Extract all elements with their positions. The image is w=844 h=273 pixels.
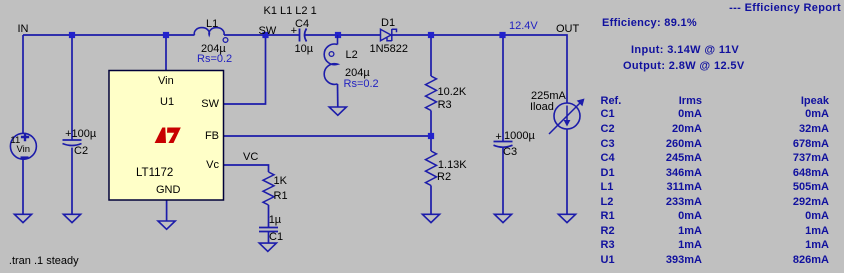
wire FB net [224,135,431,137]
input power line [631,44,739,57]
ground (C3) [494,214,511,222]
table row R1 Ipeak value [805,210,829,223]
table row C3 Irms value [666,138,702,151]
coupling statement K1 L1 L2 1 [264,5,317,18]
current source Iload (225mA) [549,99,585,135]
wire L1 to C4 [224,34,300,36]
resistor R1 value label 1K [274,175,287,188]
ground (U1 GND) [158,221,175,229]
junction C3 / OUT rail [499,32,505,38]
table row R3 Irms value [678,239,702,252]
table row C4 Irms value [666,152,702,165]
capacitor C1 [259,228,278,232]
C2 value label +100µ [65,128,96,141]
wire OUT rail [503,35,568,103]
table row R2 Irms value [678,225,702,238]
resistor R2 value label [438,159,467,172]
wire C4 to L2 node [305,34,381,36]
U1 value label LT1172 [136,167,173,180]
wire D1 cathode to R3 node [392,34,503,36]
C3 polarity plus [495,131,501,144]
node OUT label [556,23,579,36]
table row L2 Ipeak value [793,196,829,209]
efficiency report title [729,2,841,15]
table row C1 Ipeak value [805,108,829,121]
table row D1 Ipeak value [793,167,829,180]
voltage source Vin name label [17,145,31,156]
table row R2 ref [601,225,615,238]
wire R3 to R2 through FB node [430,111,432,152]
table row R2 Ipeak value [805,225,829,238]
junction R3 / OUT rail [428,32,434,38]
diode D1 (schottky 1N5822) [381,29,397,41]
wire R3 top [430,35,432,76]
node IN label [18,23,29,36]
table row R3 Ipeak value [805,239,829,252]
L2 value label 204µ [345,67,370,80]
table row U1 ref [601,254,615,267]
table row C4 ref [601,152,615,165]
junction FB / divider [428,133,434,139]
ground (R2) [422,214,439,222]
wire L2 to ground [337,84,339,107]
junction C2 / IN rail [69,32,75,38]
LT logo inside U1 [155,128,181,144]
inductor L2 [324,35,337,84]
wire Iload to ground [566,129,568,214]
table row L1 Ipeak value [793,181,829,194]
table row L1 Irms value [667,181,702,194]
capacitor C4 name label [295,18,309,31]
capacitor C3 (polarized) [494,142,513,148]
capacitor C1 name label [269,231,283,244]
resistor R1 [263,172,274,205]
table row C1 Irms value [678,108,702,121]
table row C3 ref [601,138,615,151]
table header Irms [679,95,702,108]
efficiency value line [602,17,697,30]
wire IN rail top [23,34,195,36]
capacitor C3 name label [503,146,517,159]
U1 pin GND label [156,184,180,197]
table row R1 ref [601,210,615,223]
resistor R2 name label [437,171,451,184]
wire C1 to ground [268,232,270,244]
spice directive .tran [9,255,79,268]
table row C2 Ipeak value [799,123,829,136]
table row U1 Irms value [666,254,702,267]
resistor R3 value label [438,86,467,99]
node SW label [259,25,277,38]
diode D1 name label [381,17,395,30]
output power line [623,60,745,73]
table row L2 ref [601,196,614,209]
U1 pin FB label [205,130,219,143]
current source Iload name label [530,101,554,114]
U1 pin Vc label [206,159,219,172]
resistor R2 [426,151,437,186]
wire U1 Vin to IN rail [165,35,167,71]
inductor L1 name label [206,18,218,31]
table row U1 Ipeak value [793,254,829,267]
wire C3 to ground [502,148,504,215]
Iload value label 225mA [531,90,566,103]
C4 polarity plus [291,25,297,38]
U1 name label [160,96,174,109]
wire SW node to U1 SW pin [224,35,266,104]
wire U1 GND pin to ground [166,200,168,221]
junction U1 Vin / IN rail [163,32,169,38]
table row C3 Ipeak value [793,138,829,151]
table row R1 Irms value [678,210,702,223]
C4 value label 10µ [295,43,314,56]
inductor L1 [194,28,228,43]
L1 value label 204µ [201,43,226,56]
table row L1 ref [601,181,614,194]
C3 value label 1000µ [504,130,535,143]
node voltage 12.4V label [509,20,538,33]
table header Ref. [601,95,622,108]
voltage source Vin (11V) [10,133,36,159]
wire C3 to OUT rail [502,35,504,142]
table row C2 ref [601,123,615,136]
junction L2 tap [335,32,341,38]
table header Ipeak [801,95,829,108]
resistor R3 [426,76,437,111]
ground (L2) [329,107,346,115]
capacitor C2 (polarized) [63,140,82,146]
op-amp U1 body (LT1172 regulator box) [109,71,224,201]
table row C4 Ipeak value [793,152,829,165]
wire R1 to C1 [268,205,270,228]
capacitor C4 (polarized) [300,29,307,42]
ground (C2) [63,214,80,222]
resistor R1 name label [274,190,288,203]
node VC label [243,151,258,164]
table row C2 Irms value [672,123,702,136]
D1 value label 1N5822 [370,43,409,56]
L1 series resistance label [197,53,232,66]
V1 value label 11 [10,136,20,147]
capacitor C2 name label [74,145,88,158]
ground (Iload) [558,214,575,222]
ground (V1) [14,214,31,222]
inductor L2 name label [346,49,358,62]
wire C2 to IN rail [71,35,73,140]
resistor R3 name label [438,99,452,112]
wire C2 to ground [71,148,73,215]
U1 pin SW label [201,98,219,111]
table row L2 Irms value [666,196,702,209]
table row D1 Irms value [666,167,702,180]
table row D1 ref [601,167,615,180]
table row C1 ref [601,108,615,121]
L2 series resistance label [344,78,379,91]
junction SW node [262,32,268,38]
U1 pin Vin label [158,75,174,88]
ground (C1) [259,243,276,251]
wire V1 to ground [22,159,24,214]
wire R2 to ground [430,186,432,215]
wire U1 Vc to R1 [224,165,269,172]
table row R3 ref [601,239,615,252]
C1 value label 1µ [269,214,281,227]
wire V1 to IN rail [22,35,24,134]
